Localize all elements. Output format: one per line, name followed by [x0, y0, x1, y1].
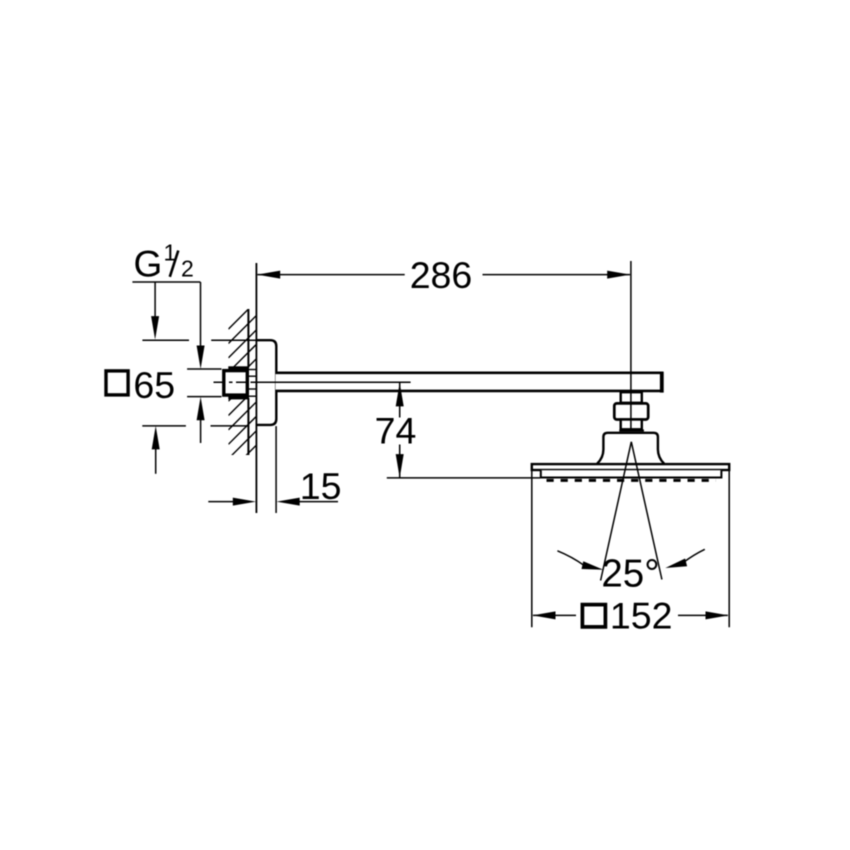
svg-text:15: 15	[300, 465, 342, 507]
dim 152 arrow right	[706, 611, 729, 619]
dim 15 arrow right-pointing	[233, 498, 256, 506]
wall face extension line	[255, 263, 257, 513]
dim 15 line	[208, 501, 338, 503]
collar bar	[619, 429, 644, 431]
wall surface line	[247, 309, 249, 455]
angle leader right	[684, 549, 705, 562]
arrow left of 286	[257, 271, 280, 279]
thread band blank	[249, 368, 256, 399]
shower head cone	[597, 433, 664, 464]
dim 74 bottom extension	[387, 477, 540, 479]
dim 74 arrow down	[396, 454, 404, 478]
nozzle row	[547, 479, 716, 482]
leader stem square65 top	[154, 282, 156, 317]
head centerline	[630, 261, 632, 431]
label square 65	[106, 371, 128, 395]
label square 152	[582, 605, 605, 627]
leader stem G1/2 top	[200, 282, 202, 346]
extension line plate top	[142, 339, 256, 341]
svg-text:74: 74	[375, 410, 417, 452]
leader stem G1/2 bottom	[200, 420, 202, 443]
joint neck upper	[621, 392, 642, 403]
dim 152 line	[533, 614, 728, 616]
head centerline through joint	[630, 372, 632, 431]
nipple flange bottom	[228, 396, 249, 399]
svg-text:65: 65	[133, 364, 175, 406]
dim 74 stem	[399, 383, 401, 478]
svg-text:152: 152	[610, 595, 673, 637]
nipple flange top	[228, 366, 249, 369]
svg-text:25°: 25°	[601, 552, 659, 595]
thread lines	[249, 370, 256, 397]
svg-text:G: G	[134, 243, 163, 284]
joint neck lower	[621, 420, 642, 430]
head width extension lines	[532, 471, 729, 627]
dimension line 286	[257, 274, 630, 276]
extension line plate bottom	[142, 425, 248, 427]
wall plate escutcheon	[256, 340, 276, 425]
arm centerline extension	[251, 381, 411, 383]
svg-text:286: 286	[410, 254, 473, 296]
swivel block	[614, 403, 648, 419]
svg-text:2: 2	[181, 255, 194, 281]
plate front extension line	[275, 426, 277, 513]
spray angle V right leg	[631, 442, 662, 580]
label G 1/2	[134, 239, 194, 284]
connection nipple body	[224, 371, 248, 396]
extension line nipple bottom	[187, 396, 221, 398]
arrow right of 286	[607, 271, 630, 279]
head lip	[541, 470, 722, 477]
extension line nipple top	[187, 368, 221, 370]
dim 74 arrow up	[396, 383, 404, 407]
spray angle V left leg	[601, 442, 632, 581]
nipple centerline	[214, 381, 251, 383]
dim 15 arrow left-pointing	[277, 498, 300, 506]
leader underline of G 1/2	[132, 281, 200, 283]
leader stem square65 bottom	[155, 449, 157, 474]
shower arm	[276, 373, 662, 391]
head top disc	[532, 464, 729, 470]
angle leader left	[557, 551, 584, 566]
dim 152 arrow left	[533, 611, 556, 619]
arm end cap	[660, 372, 664, 393]
wall hatching	[228, 302, 256, 488]
